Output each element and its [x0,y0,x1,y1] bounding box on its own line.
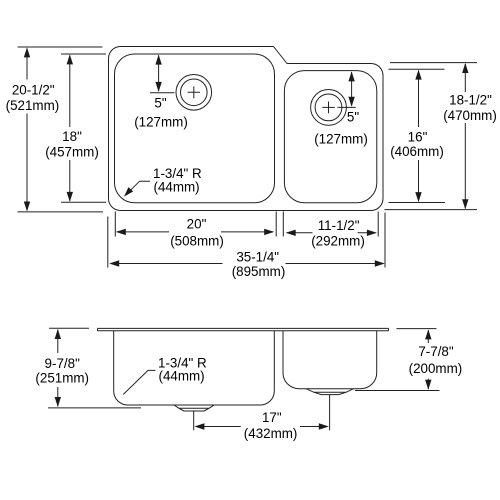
svg-text:16": 16" [408,129,428,144]
svg-text:(508mm): (508mm) [170,233,224,248]
svg-text:(895mm): (895mm) [232,264,286,279]
svg-text:(44mm): (44mm) [159,369,205,384]
svg-text:(406mm): (406mm) [390,144,444,159]
svg-text:(200mm): (200mm) [409,361,463,376]
svg-text:(432mm): (432mm) [244,426,298,441]
svg-text:35-1/4": 35-1/4" [236,249,279,264]
svg-text:(292mm): (292mm) [311,233,365,248]
svg-text:(127mm): (127mm) [314,132,368,147]
svg-text:11-1/2": 11-1/2" [318,218,360,233]
svg-text:20": 20" [187,216,207,231]
svg-text:9-7/8": 9-7/8" [45,356,81,371]
svg-text:(251mm): (251mm) [35,371,89,386]
svg-text:(457mm): (457mm) [45,145,99,160]
svg-text:5": 5" [154,96,166,111]
svg-text:17": 17" [262,410,282,425]
svg-text:18-1/2": 18-1/2" [449,93,492,108]
svg-text:7-7/8": 7-7/8" [418,344,454,359]
svg-text:(127mm): (127mm) [134,115,188,130]
svg-text:(470mm): (470mm) [443,108,497,123]
svg-text:(44mm): (44mm) [154,180,200,195]
svg-text:20-1/2": 20-1/2" [12,83,55,98]
svg-text:5": 5" [347,110,359,125]
svg-text:18": 18" [62,129,82,144]
svg-text:(521mm): (521mm) [6,98,60,113]
